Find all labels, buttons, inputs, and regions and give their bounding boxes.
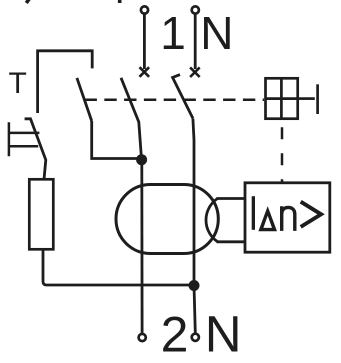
label IΔn : delta outer xyxy=(258,206,277,231)
terminal N bottom xyxy=(192,334,199,341)
wire aux blade to pole 1 junction xyxy=(92,121,142,159)
junction dot pole N xyxy=(189,280,200,291)
svg-text:2: 2 xyxy=(161,306,189,362)
terminal 1 xyxy=(141,6,148,13)
mechanism actuator bar xyxy=(316,84,319,114)
pole 1 conductor xyxy=(140,160,143,333)
label IΔn : letter n xyxy=(282,206,295,231)
wire terminal N to fixed contact xyxy=(194,15,197,70)
wire resistor to N junction xyxy=(43,250,194,286)
terminal N top xyxy=(192,6,199,13)
test contact blade xyxy=(25,119,46,180)
svg-text:1: 1 xyxy=(160,7,186,59)
winding lead bottom xyxy=(217,240,246,243)
svg-text:T: T xyxy=(9,67,27,100)
trip mechanism box xyxy=(266,78,298,118)
main contact blade pole 1 xyxy=(121,78,142,159)
trip linkage dashed vertical xyxy=(281,127,284,181)
junction dot pole 1 xyxy=(136,154,147,165)
main contact blade pole N xyxy=(173,75,193,119)
fixed contact x pole N xyxy=(190,67,200,77)
test resistor xyxy=(29,179,53,249)
mechanism cross horizontal xyxy=(265,97,300,100)
label IΔn : delta inner xyxy=(263,216,272,228)
relay box IΔn xyxy=(245,183,330,252)
winding lead top xyxy=(217,197,246,200)
label IΔn : letter I xyxy=(252,196,255,230)
mechanism cross vertical xyxy=(280,77,283,120)
test linkage bracket xyxy=(38,51,93,113)
pole N conductor xyxy=(193,118,195,332)
auxiliary contact blade xyxy=(77,78,92,121)
svg-text:N: N xyxy=(200,7,233,59)
crop artifact tick xyxy=(118,0,122,3)
svg-text:N: N xyxy=(205,305,242,362)
mechanism linkage dashed xyxy=(85,99,265,102)
secondary winding arc xyxy=(206,199,218,242)
wire terminal 1 to fixed contact xyxy=(143,15,146,70)
current transformer toroid xyxy=(116,185,218,254)
terminal 2 xyxy=(139,334,146,341)
crop artifact comma xyxy=(26,0,30,3)
label IΔn : greater-than xyxy=(301,202,321,227)
mechanism actuator lead xyxy=(299,97,315,100)
test button xyxy=(9,122,40,156)
fixed contact x pole 1 xyxy=(140,67,150,77)
